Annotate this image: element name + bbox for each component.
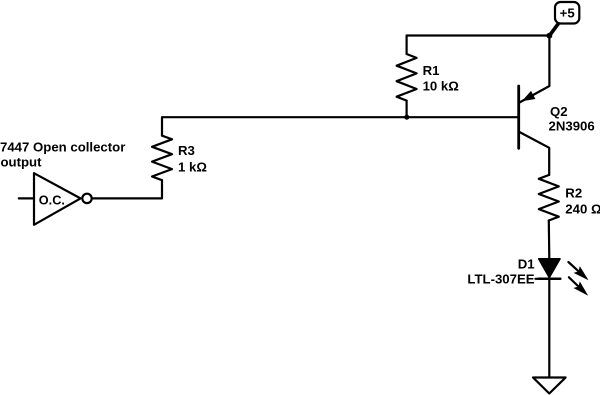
label pointer tick for LTL-307EE [536,278,541,280]
resistor R2 [539,175,559,221]
svg-text:10 kΩ: 10 kΩ [423,79,460,94]
svg-text:Q2: Q2 [550,104,568,119]
svg-text:+5: +5 [560,5,575,20]
label Q2 2N3906 [549,104,595,134]
ground symbol [533,378,566,394]
inverter U1 open-collector buffer [34,173,81,225]
label R3 1 kOhm [178,143,207,174]
svg-text:R1: R1 [423,63,440,78]
wire LED cathode to ground [548,279,550,378]
label R2 240 Ohm [565,186,600,217]
junction node at +5 [547,33,553,39]
resistor R3 [152,136,172,181]
svg-text:LTL-307EE: LTL-307EE [467,272,534,287]
label 7447 Open collector output [0,140,125,170]
wire R1 bottom stub [406,101,408,118]
LED D1 cathode bar [539,278,561,281]
svg-text:1 kΩ: 1 kΩ [178,159,207,174]
wire emitter from +5 node [520,36,550,102]
LED light arrow 2 [569,277,588,296]
svg-text:7447 Open collector: 7447 Open collector [0,140,125,155]
+5 supply stub wire [549,23,558,36]
svg-text:output: output [1,154,43,169]
svg-text:240 Ω: 240 Ω [565,202,600,217]
wire inverter output to R3 [93,180,162,198]
inverter output bubble [82,194,91,203]
wire R3 top to transistor base (node B) [162,117,519,135]
svg-text:2N3906: 2N3906 [549,119,595,134]
label D1 LTL-307EE [467,257,534,287]
LED D1 anode triangle [539,259,560,278]
svg-text:R3: R3 [178,143,195,158]
svg-text:D1: D1 [518,257,535,272]
resistor R1 [397,54,417,101]
wire input to inverter [19,197,34,199]
svg-text:R2: R2 [565,186,582,201]
label R1 10 kOhm [423,63,460,94]
+5 supply box [555,2,579,24]
transistor Q2 base bar [517,86,520,148]
LED light arrow 1 [568,262,588,280]
wire R2 bottom to LED anode [548,221,551,259]
svg-text:O.C.: O.C. [39,194,65,208]
wire R1 top to +5 node [407,36,550,55]
wire collector to R2 [520,132,550,175]
emitter arrow of Q2 (PNP) [522,91,536,101]
junction node at R1 bottom [404,115,409,120]
